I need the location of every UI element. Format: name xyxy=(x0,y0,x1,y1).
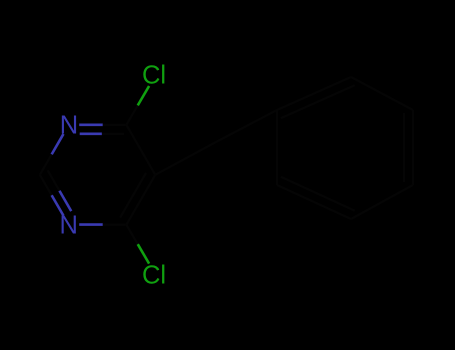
benzene edge E6 single (left, vertical) xyxy=(276,110,278,185)
benzene edge E3 inner line xyxy=(403,113,405,182)
pyrimidine N1=C6 double bond axis line, blue half xyxy=(79,124,103,127)
benzene edge E1 inner line xyxy=(281,85,355,118)
C6-Cl bond, carbon half xyxy=(126,105,137,124)
pyrimidine N1-C2 single bond, carbon half xyxy=(40,154,52,174)
svg-text:Cl: Cl xyxy=(142,62,166,90)
pyrimidine C5-C6 single bond (carbon) xyxy=(126,125,155,175)
benzene edge E5 axis (bottom-left) xyxy=(277,185,351,219)
C4-Cl bond, carbon half xyxy=(126,225,137,244)
chain bond CH2-CH2 (carbon, faint) xyxy=(216,110,277,142)
svg-text:N: N xyxy=(59,212,77,240)
C4-Cl bond, chlorine half xyxy=(138,244,149,263)
pyrimidine N3-C4 single bond, carbon half xyxy=(103,224,127,226)
chain bond C5-CH2 (carbon, faint) xyxy=(155,142,216,175)
pyrimidine N1=C6 double bond axis line, carbon half xyxy=(103,124,127,126)
benzene edge E5 inner line xyxy=(281,177,355,211)
pyrimidine N1=C6 inner line, carbon half xyxy=(102,133,124,135)
svg-text:N: N xyxy=(60,112,78,140)
pyrimidine C4=C5 inner line (carbon) xyxy=(120,173,146,218)
pyrimidine C4=C5 double bond axis (carbon) xyxy=(126,175,155,225)
benzene edge E4 single (bottom-right) xyxy=(351,185,413,219)
pyrimidine N1-C2 single bond, blue half xyxy=(52,134,64,154)
svg-text:Cl: Cl xyxy=(142,262,166,290)
benzene edge E1 axis (top-left) xyxy=(277,77,351,110)
pyrimidine C2=N3 inner line, blue half xyxy=(59,191,71,211)
pyrimidine C2=N3 inner line, carbon half xyxy=(48,170,60,190)
C6-Cl bond, chlorine half xyxy=(138,86,149,105)
benzene edge E2 single (top-right) xyxy=(351,77,413,110)
pyrimidine N3-C4 single bond, blue half xyxy=(79,223,103,226)
pyrimidine C2=N3 double bond axis, blue half xyxy=(52,195,64,215)
pyrimidine C2=N3 double bond axis, carbon half xyxy=(40,175,52,195)
benzene edge E3 axis (right, vertical) xyxy=(412,110,414,185)
pyrimidine N1=C6 inner line, blue half xyxy=(80,133,102,136)
